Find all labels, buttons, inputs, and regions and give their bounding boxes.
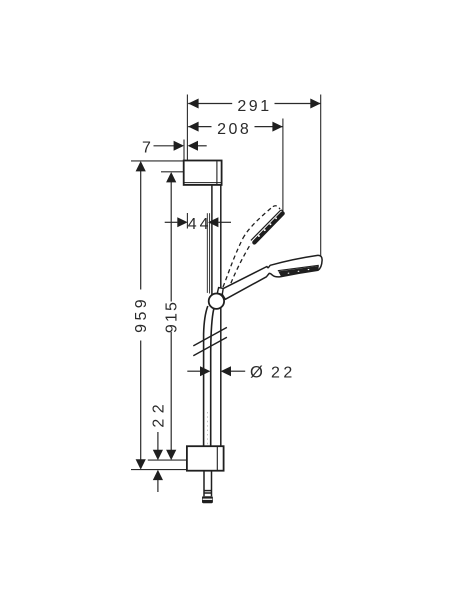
dim 291 line [188,103,321,105]
wall bracket top inner right line [216,161,218,184]
svg-text:22: 22 [150,399,167,428]
wall bracket top inner bottom line [184,182,221,184]
dim diameter 22 line [187,370,245,372]
dim 959 top arrow [136,161,146,171]
ref line 959 top [131,160,184,162]
dim 22 lower arrow (points up) [153,470,163,480]
hose end nut [202,496,213,503]
dim diameter 22 right arrow (points left) [221,366,231,376]
dashed handle (raised position) [223,238,251,290]
dim 22 vertical line [157,432,159,492]
dim 22 upper arrow (points down) [153,450,163,460]
dim 7 line [154,145,207,147]
solid hand shower silhouette (handle + head) [220,255,322,299]
dim 44 left arrow (points right) [177,217,187,227]
solid head nozzle speckles [288,269,310,274]
extension line left of brackets (wall +7) [186,95,188,186]
dashed head spray face (dark strip) [254,213,282,242]
rail hidden fin line (dotted) [206,412,208,446]
dim 915 bottom arrow [166,450,176,460]
svg-text:22: 22 [271,365,296,382]
hose from handle to bottom [204,306,208,446]
holder clamp nub [217,288,223,295]
svg-text:291: 291 [237,98,271,115]
dim 959 bottom arrow [136,459,146,469]
break slash 2 [193,337,227,356]
extension line 291 right [320,95,322,257]
dashed head back outline [243,207,273,239]
extension line 208 right [282,119,284,213]
svg-text:Ø: Ø [250,364,263,382]
dim diameter 22 left arrow (points right) [200,366,210,376]
dashed head top cap [273,206,280,209]
ref line 915/22 bottom [148,459,187,461]
dim 7 left arrow (points right) [174,141,184,151]
svg-text:959: 959 [133,296,150,333]
extension line 7 left reference [183,140,185,161]
ref line 959 bottom [131,469,187,471]
dim 915 top arrow [166,172,176,182]
dim 44 line [165,221,231,223]
dim 7 right arrow (points left) [188,141,198,151]
wall bracket bottom [187,446,224,471]
dim 208 right arrow [272,122,282,132]
solid head inner face line [278,265,319,270]
dim 44 right arrow (points left) [208,217,218,227]
svg-text:915: 915 [164,300,181,333]
wall bracket bottom inner right line [216,447,218,470]
rail tube [212,185,221,446]
ref line 915 top [161,171,184,173]
solid head spray face (dark strip) [278,266,319,276]
dim 291 left arrow [188,99,198,109]
holder circle [209,294,224,309]
dim 959 vertical line [140,170,142,460]
wall bracket top [184,161,222,185]
svg-text:7: 7 [142,140,151,157]
dim 291 right arrow [310,99,320,109]
rail front fin lines [206,213,208,293]
svg-text:44: 44 [188,216,212,233]
dim 208 line [188,126,283,128]
dim 208 left arrow [188,122,198,132]
extension line segment for 44 [186,213,188,229]
dim 915 vertical line [170,181,172,451]
svg-text:208: 208 [217,121,251,138]
hose below bottom bracket [204,471,212,496]
dashed head face top edge [251,210,283,240]
break slash 1 [193,327,227,346]
hose end nut stripe [203,499,213,500]
dashed head nozzle wavy nicks [258,217,277,237]
